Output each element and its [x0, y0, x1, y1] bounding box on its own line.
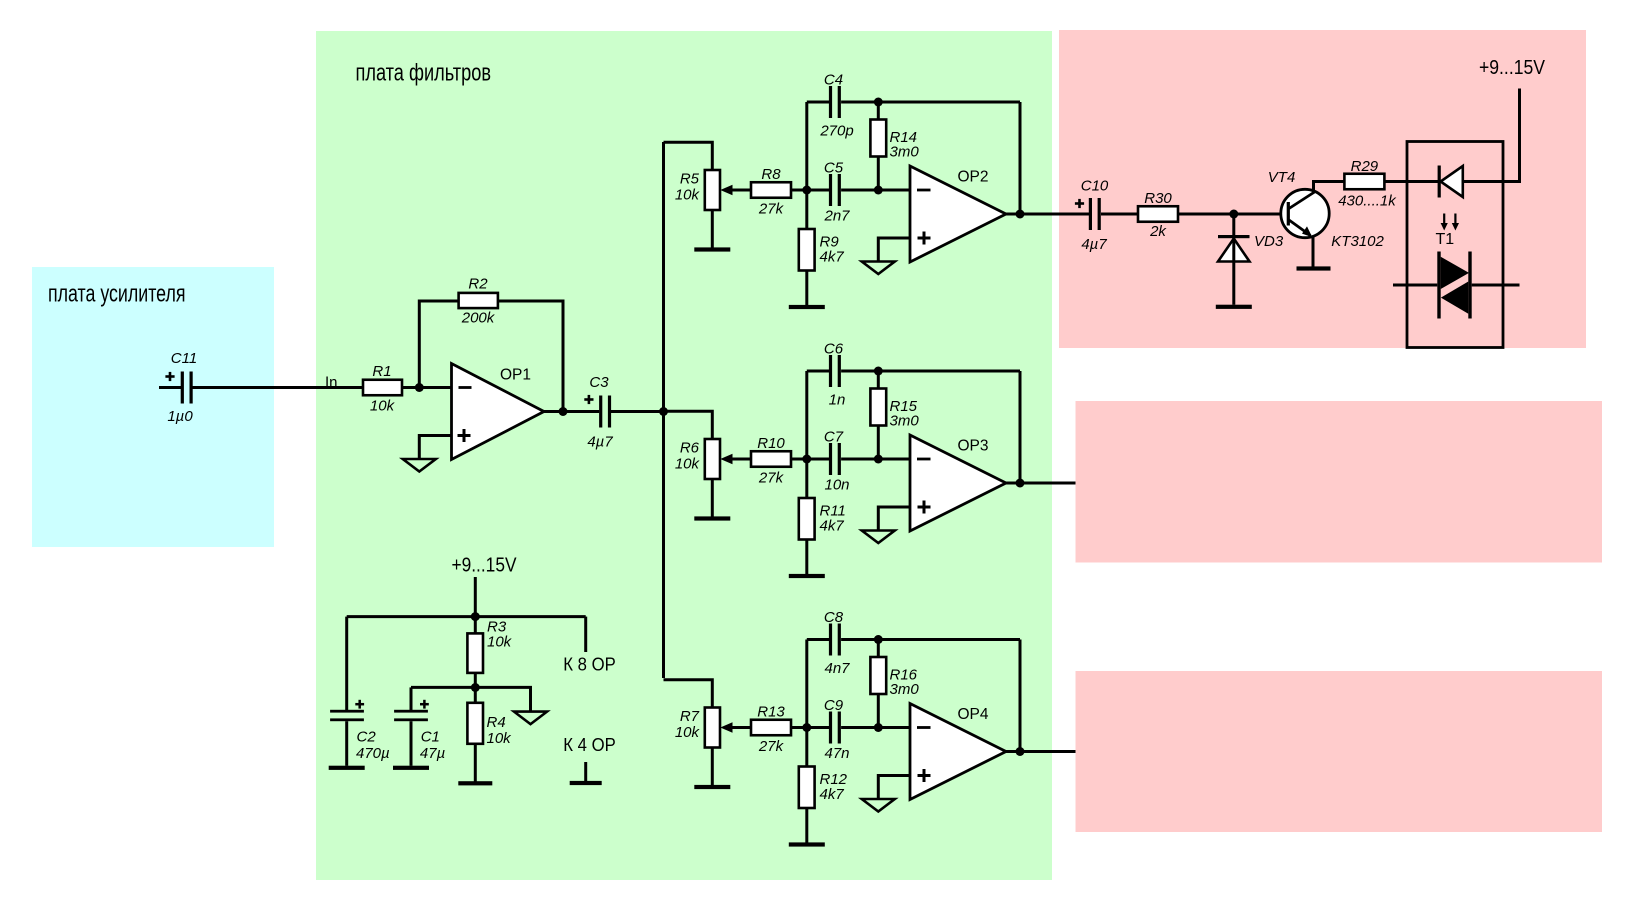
svg-text:плата фильтров: плата фильтров — [356, 60, 492, 87]
svg-text:C7: C7 — [824, 429, 844, 446]
svg-text:R29: R29 — [1351, 158, 1379, 175]
svg-text:2k: 2k — [1149, 223, 1167, 240]
svg-text:2n7: 2n7 — [823, 208, 850, 225]
svg-text:200k: 200k — [461, 310, 496, 327]
svg-text:KT3102: KT3102 — [1331, 233, 1384, 250]
svg-text:10k: 10k — [675, 456, 701, 473]
svg-text:+9...15V: +9...15V — [1479, 57, 1546, 79]
svg-text:1n: 1n — [829, 392, 846, 409]
svg-text:4k7: 4k7 — [820, 518, 845, 535]
svg-text:OP3: OP3 — [958, 438, 989, 455]
svg-text:К 8 ОР: К 8 ОР — [563, 654, 616, 675]
svg-text:4k7: 4k7 — [820, 249, 845, 266]
svg-text:C10: C10 — [1081, 178, 1109, 195]
svg-text:C1: C1 — [421, 729, 440, 746]
svg-text:10k: 10k — [370, 398, 396, 415]
svg-text:OP1: OP1 — [500, 367, 531, 384]
svg-text:R5: R5 — [680, 171, 700, 188]
svg-text:27k: 27k — [758, 470, 785, 487]
svg-text:10n: 10n — [824, 477, 849, 494]
svg-text:C4: C4 — [824, 72, 843, 89]
svg-text:R1: R1 — [372, 363, 391, 380]
svg-text:OP2: OP2 — [958, 169, 989, 186]
svg-text:470µ: 470µ — [356, 745, 390, 762]
svg-text:R30: R30 — [1144, 190, 1172, 207]
svg-text:R2: R2 — [468, 276, 488, 293]
svg-text:47n: 47n — [824, 745, 849, 762]
svg-text:R13: R13 — [757, 704, 785, 721]
svg-text:+9...15V: +9...15V — [452, 555, 518, 577]
svg-text:T1: T1 — [1436, 231, 1455, 248]
svg-text:R7: R7 — [680, 708, 700, 725]
svg-text:4µ7: 4µ7 — [587, 434, 613, 451]
svg-text:R10: R10 — [757, 435, 785, 452]
svg-text:3m0: 3m0 — [890, 413, 920, 430]
svg-text:3m0: 3m0 — [890, 144, 920, 161]
svg-text:430....1k: 430....1k — [1338, 193, 1397, 210]
svg-text:10k: 10k — [487, 634, 513, 651]
svg-text:VD3: VD3 — [1254, 233, 1284, 250]
svg-text:C11: C11 — [171, 350, 197, 367]
svg-text:In: In — [325, 375, 338, 392]
svg-text:4n7: 4n7 — [824, 660, 850, 677]
svg-text:плата усилителя: плата усилителя — [48, 280, 186, 307]
svg-text:C5: C5 — [824, 160, 844, 177]
svg-text:C2: C2 — [357, 729, 377, 746]
svg-text:C3: C3 — [589, 374, 609, 391]
svg-text:VT4: VT4 — [1268, 169, 1296, 186]
svg-text:R6: R6 — [680, 440, 700, 457]
svg-text:К 4 ОР: К 4 ОР — [563, 734, 616, 755]
svg-text:C9: C9 — [824, 697, 844, 714]
svg-text:R4: R4 — [487, 714, 506, 731]
svg-text:OP4: OP4 — [958, 706, 989, 723]
svg-text:27k: 27k — [758, 201, 785, 218]
svg-text:C6: C6 — [824, 341, 844, 358]
svg-text:10k: 10k — [675, 724, 701, 741]
svg-text:4k7: 4k7 — [820, 786, 845, 803]
svg-text:47µ: 47µ — [420, 745, 445, 762]
svg-text:270p: 270p — [819, 123, 853, 140]
svg-text:10k: 10k — [675, 187, 701, 204]
svg-text:C8: C8 — [824, 609, 844, 626]
svg-text:R8: R8 — [761, 166, 781, 183]
svg-text:3m0: 3m0 — [890, 681, 920, 698]
svg-text:10k: 10k — [487, 730, 513, 747]
svg-text:1µ0: 1µ0 — [167, 408, 193, 425]
svg-text:4µ7: 4µ7 — [1081, 236, 1107, 253]
svg-text:27k: 27k — [758, 738, 785, 755]
